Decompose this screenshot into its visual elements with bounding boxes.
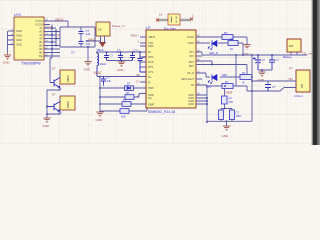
resistor R7 vertical (222, 96, 228, 104)
IC U2 inner left pin labels (16, 29, 22, 47)
svg-text:GND: GND (117, 68, 125, 72)
junction dot R7 top (224, 85, 226, 87)
svg-text:VBCK: VBCK (97, 48, 105, 52)
wire U2 bus down to transistors (50, 56, 52, 66)
rail y55 (202, 52, 307, 55)
wire row y43 (STAT via LED1) (202, 43, 243, 55)
LED D2 (208, 41, 217, 50)
ground GND8 text (222, 134, 230, 138)
svg-text:A1: A1 (39, 26, 43, 30)
transistor Q2 (47, 102, 60, 112)
connector P2 box (296, 70, 310, 92)
junction dot loop bottom (87, 46, 89, 48)
wire BAT pins join (202, 61, 247, 77)
IC U2 level shifter body (14, 17, 44, 60)
power port net text (97, 48, 105, 52)
svg-text:D?: D? (52, 93, 56, 97)
ground GND3 text (43, 124, 51, 128)
Q1 label red (52, 67, 56, 71)
Q1 designator (58, 88, 62, 92)
wire vert x236 down (235, 55, 237, 86)
svg-text:NC: NC (148, 96, 152, 100)
VBAT rail top (96, 51, 146, 53)
fuse no-ERC cross left (156, 19, 159, 22)
svg-text:P?: P? (289, 66, 293, 70)
svg-text:10K: 10K (121, 116, 126, 119)
svg-text:C?: C? (272, 85, 276, 89)
svg-text:BAT: BAT (189, 64, 194, 68)
power port arrow (input) (99, 43, 106, 47)
capacitor C9 polarized (253, 55, 261, 70)
ground GND4 (filter) (118, 62, 125, 67)
resistor R4h label (225, 80, 229, 84)
junction dots on rail (106, 51, 141, 61)
svg-text:TP: TP (48, 26, 52, 30)
fuse F1 body (168, 14, 180, 25)
wires right of U2: vertical bus (50, 21, 68, 56)
svg-text:R?: R? (225, 80, 229, 84)
LED D3 (208, 75, 217, 84)
resistor R3 labels (242, 71, 246, 84)
svg-text:SCLK: SCLK (187, 35, 194, 39)
capacitor C3 label (110, 54, 114, 58)
svg-text:LED_P: LED_P (209, 51, 218, 55)
net label VBAT red (94, 71, 102, 75)
ground GND2 text (84, 67, 92, 71)
capacitor C5 label (134, 48, 138, 52)
svg-text:DCD: DCD (148, 60, 154, 64)
capacitor C1 (79, 32, 84, 34)
connector P2 label blue (294, 94, 303, 98)
LED D2 label (209, 51, 218, 55)
fuse right pin label red (192, 14, 194, 18)
junction dot BAT join (211, 64, 213, 66)
svg-text:GND: GND (16, 29, 22, 33)
svg-text:Power_in: Power_in (112, 24, 125, 28)
net label VBCK at P1 (88, 37, 96, 41)
svg-text:A3: A3 (39, 33, 43, 37)
connector P2 pin stubs (292, 81, 296, 88)
svg-text:RI: RI (148, 50, 151, 54)
svg-text:C?: C? (236, 111, 240, 115)
svg-text:R?: R? (242, 71, 246, 75)
svg-text:YB03: YB03 (130, 34, 137, 38)
capacitor C8 label (272, 85, 276, 89)
svg-text:D+: D+ (148, 75, 152, 79)
resistor R7 wires (224, 89, 226, 109)
ground GND5 (below vertical) (96, 112, 103, 117)
svg-text:1K: 1K (242, 80, 245, 84)
net name on wire y77 (222, 73, 228, 77)
wire to GND2 (87, 47, 89, 62)
svg-text:PK_P: PK_P (187, 71, 194, 75)
resistor R7 labels (229, 96, 234, 104)
svg-text:B3: B3 (39, 47, 43, 51)
battery legs (291, 52, 297, 55)
svg-text:GND: GND (16, 42, 22, 46)
fuse part name blue (164, 27, 176, 31)
pair labels (236, 111, 242, 119)
IC U1 body (SIM800C) (146, 30, 196, 108)
net label VBUS red (left of U1) (130, 34, 137, 38)
VBAT rail lower (97, 76, 146, 78)
ground GND6 (row y37) (243, 45, 250, 50)
ground GND6 text (243, 52, 251, 56)
svg-text:GND: GND (43, 124, 51, 128)
svg-text:C?: C? (110, 54, 114, 58)
svg-text:GND: GND (3, 60, 11, 64)
resistor R1 (222, 35, 233, 40)
junction dot Q2 (46, 106, 48, 115)
svg-text:47K: 47K (229, 100, 234, 104)
ground GND8 (bottom center) (223, 126, 230, 131)
svg-text:GND: GND (222, 134, 230, 138)
svg-text:BAT: BAT (301, 83, 304, 88)
svg-text:DC: DC (98, 28, 102, 32)
capacitor C4 label (117, 48, 121, 52)
svg-text:RXD: RXD (148, 44, 154, 48)
svg-text:VBAT: VBAT (94, 71, 102, 75)
fuse left pin label red (159, 13, 163, 17)
wire loop (charge pump) (60, 27, 95, 47)
resistor R6 labels (121, 116, 126, 119)
diode D1 (125, 86, 134, 91)
diode D1 label (127, 82, 131, 86)
wire row y97 (100, 94, 146, 98)
IC U1 part number (148, 110, 175, 114)
svg-text:TP: TP (56, 33, 60, 37)
ground GND5 text (96, 118, 104, 122)
wire row y86 (TN) (202, 85, 252, 91)
transistor Q1 subcircuit box (relay/opto) (60, 70, 75, 84)
ground GND1 (left of U2) (4, 53, 11, 60)
junction dots rail y55 (235, 54, 273, 56)
svg-text:U?: U? (146, 26, 151, 30)
connector P2 wires (252, 81, 292, 91)
resistor R4h (222, 84, 233, 89)
ground GND4 text (117, 68, 125, 72)
capacitor C6 (right, to pin) (138, 52, 147, 72)
IC U1 designator (146, 26, 151, 30)
P1 legs (101, 36, 105, 43)
ground GND3 (below transistors) (43, 118, 50, 123)
svg-text:TXB0108PW: TXB0108PW (21, 62, 41, 66)
junction dots x207 (206, 97, 208, 123)
net stub D+ label red (137, 73, 141, 77)
ground GND7 (right caps) (258, 72, 265, 77)
svg-text:RTS: RTS (148, 65, 153, 69)
svg-text:1uF: 1uF (86, 42, 91, 46)
svg-text:100n: 100n (236, 114, 242, 118)
IC U1 left pin numbers (136, 35, 139, 97)
ground GND7 text (258, 78, 266, 82)
net label CL (71, 51, 75, 55)
resistor R3 (240, 75, 252, 80)
svg-text:B4: B4 (39, 51, 43, 55)
capacitor C8 (between P2 nets) (265, 85, 271, 92)
svg-text:OE: OE (39, 54, 43, 58)
svg-text:A4: A4 (39, 37, 43, 41)
connector P2 designator red (289, 66, 293, 70)
svg-text:D-: D- (148, 80, 151, 84)
ground GND2 (84, 62, 91, 67)
IC U2 right pin stubs (44, 21, 50, 56)
svg-text:U?C: U?C (14, 13, 22, 17)
connector P2 pin numbers red (288, 77, 293, 81)
parallel pair R8 (219, 110, 224, 120)
fuse F1 leads (157, 19, 191, 22)
svg-text:VCCB: VCCB (35, 23, 42, 27)
L1 label (94, 62, 106, 66)
svg-text:ST1: ST1 (189, 50, 194, 54)
capacitor C5 (on rail) (130, 52, 135, 61)
capacitor C3 (on rail) (104, 52, 109, 61)
junction dot caps (261, 69, 263, 71)
svg-text:BAT: BAT (289, 45, 294, 48)
svg-text:D?: D? (127, 82, 131, 86)
capacitor C6 label (143, 55, 147, 59)
Q2 label red (52, 93, 56, 97)
svg-text:VCCA: VCCA (35, 19, 42, 23)
svg-text:SIM800C_R14.18: SIM800C_R14.18 (148, 110, 175, 114)
svg-text:ST2: ST2 (189, 54, 194, 58)
svg-text:NET: NET (222, 73, 228, 77)
svg-text:D?: D? (52, 67, 56, 71)
battery label blue (283, 55, 292, 59)
capacitor C7 label (107, 76, 112, 83)
svg-text:TTL_pwr: TTL_pwr (302, 51, 313, 55)
wire VBCK net (86, 36, 101, 43)
capacitor C2 labels (86, 39, 91, 46)
Q2 designator (58, 112, 62, 116)
test point TP2 (56, 33, 60, 37)
svg-text:YB03: YB03 (225, 90, 233, 94)
net label VBCK (above loop) (55, 18, 65, 22)
resistor R2 (228, 41, 238, 46)
caps common node wire (107, 61, 133, 63)
IC U1 right pin numbers (197, 35, 200, 95)
resistor R5 labels (123, 99, 127, 102)
vertical x207 (gnd bus right of U1) (202, 86, 207, 121)
svg-text:B2: B2 (39, 44, 43, 48)
svg-text:CTS: CTS (148, 70, 153, 74)
fuse no-ERC cross right (190, 18, 193, 21)
wire row y88 with diode (100, 87, 146, 89)
svg-text:YB+: YB+ (288, 77, 293, 81)
net stub D- label red (137, 79, 140, 83)
svg-text:B1: B1 (39, 40, 43, 44)
IC U1 inner right pin labels (181, 35, 194, 106)
long vertical x252 (251, 55, 253, 121)
LED D3 label (206, 85, 211, 89)
capacitor C1 labels (86, 29, 91, 36)
svg-text:C?: C? (262, 58, 266, 62)
IC U2 left pin numbers (12, 28, 14, 45)
wire row y77 (PK_P via LED2) (202, 73, 253, 77)
transistor Q2 subcircuit box (60, 96, 75, 110)
test point TP1 (48, 26, 52, 30)
wire Q2 connections (47, 98, 60, 114)
capacitor C10 (269, 55, 275, 70)
resistor R5 (100, 103, 146, 105)
svg-text:1A: 1A (159, 13, 163, 17)
svg-text:GND: GND (96, 118, 104, 122)
IC U2 designator (14, 13, 22, 17)
IC U2 left pin stubs (8, 31, 14, 45)
IC U1 left pin stubs (140, 37, 146, 82)
IC U2 right pin numbers (45, 18, 48, 56)
svg-text:DTR: DTR (148, 55, 153, 59)
inductor L1 (97, 52, 99, 77)
junction dots right of U2 (51, 27, 57, 50)
svg-text:PWK: PWK (148, 86, 154, 90)
svg-text:VBUS: VBUS (148, 35, 155, 39)
wire U2 left gnd vertical (7, 31, 9, 53)
svg-text:R?: R? (230, 37, 234, 41)
svg-text:1uF: 1uF (107, 79, 112, 83)
svg-text:D-: D- (137, 79, 140, 83)
capacitor C10 label (276, 58, 280, 62)
resistor R2 label (230, 37, 234, 51)
svg-text:1K: 1K (230, 47, 233, 51)
svg-text:A2: A2 (39, 30, 43, 34)
resistor R1 labels (224, 31, 228, 44)
window edge band (312, 0, 320, 145)
svg-text:BEEP: BEEP (66, 75, 70, 82)
svg-text:GND: GND (84, 67, 92, 71)
resistor R6 (100, 104, 147, 111)
pair node wires (207, 109, 252, 127)
svg-text:C?: C? (71, 51, 75, 55)
svg-text:R?: R? (224, 31, 228, 35)
junction dots pair (224, 108, 228, 122)
net label TTL_power red (302, 51, 313, 55)
capacitor C2 (79, 42, 84, 44)
svg-text:GND: GND (16, 38, 22, 42)
svg-text:R?: R? (229, 96, 233, 100)
gnd vertical left of U1 (100, 77, 104, 113)
svg-text:1uF: 1uF (86, 32, 91, 36)
svg-text:GND: GND (188, 102, 194, 106)
svg-text:VBAT: VBAT (148, 102, 155, 106)
svg-text:BAT: BAT (189, 60, 194, 64)
battery B1 box (287, 39, 301, 52)
sheet background (0, 0, 320, 145)
ground GND1 text (3, 60, 11, 64)
net label YB03 red (225, 90, 233, 94)
capacitor C9 label (262, 58, 266, 62)
junction dots on vertical (99, 76, 148, 105)
IC U2 part number (21, 62, 41, 66)
capacitor C7 (on vbat lower) (101, 77, 106, 85)
svg-text:C?: C? (107, 76, 111, 80)
IC U2 inner right pin labels (35, 19, 43, 58)
transistor Q1 (50, 78, 60, 88)
caps common wire (258, 70, 272, 72)
svg-text:10uH: 10uH (100, 62, 107, 66)
IC U1 inner left pin labels (148, 35, 155, 106)
wire row y37 (SCLK to R1) (202, 37, 247, 45)
parallel pair C11 (230, 110, 235, 120)
svg-text:STAT: STAT (188, 41, 195, 45)
capacitor C4 (on rail) (118, 52, 123, 61)
svg-text:TN: TN (191, 83, 195, 87)
junction dots x252 (251, 76, 253, 92)
resistor R9 (row97) (125, 95, 134, 100)
svg-text:Battery: Battery (283, 55, 292, 59)
IC U1 right pin stubs (196, 37, 202, 104)
svg-text:GND: GND (16, 33, 22, 37)
power module P1 box (96, 22, 110, 36)
svg-text:VBCK: VBCK (55, 18, 65, 22)
svg-text:NETLIGHT: NETLIGHT (181, 77, 194, 81)
wire Q1 connections (47, 66, 60, 118)
P1 name red (112, 24, 125, 28)
svg-text:BEEP: BEEP (66, 101, 70, 108)
svg-text:3.6mm: 3.6mm (294, 94, 303, 98)
svg-text:C?: C? (276, 58, 280, 62)
